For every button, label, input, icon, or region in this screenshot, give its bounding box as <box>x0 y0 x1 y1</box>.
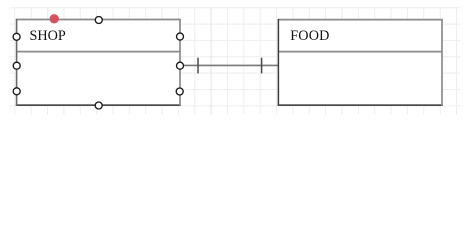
svg-text:FOOD: FOOD <box>290 28 329 44</box>
svg-text:SHOP: SHOP <box>30 28 66 44</box>
